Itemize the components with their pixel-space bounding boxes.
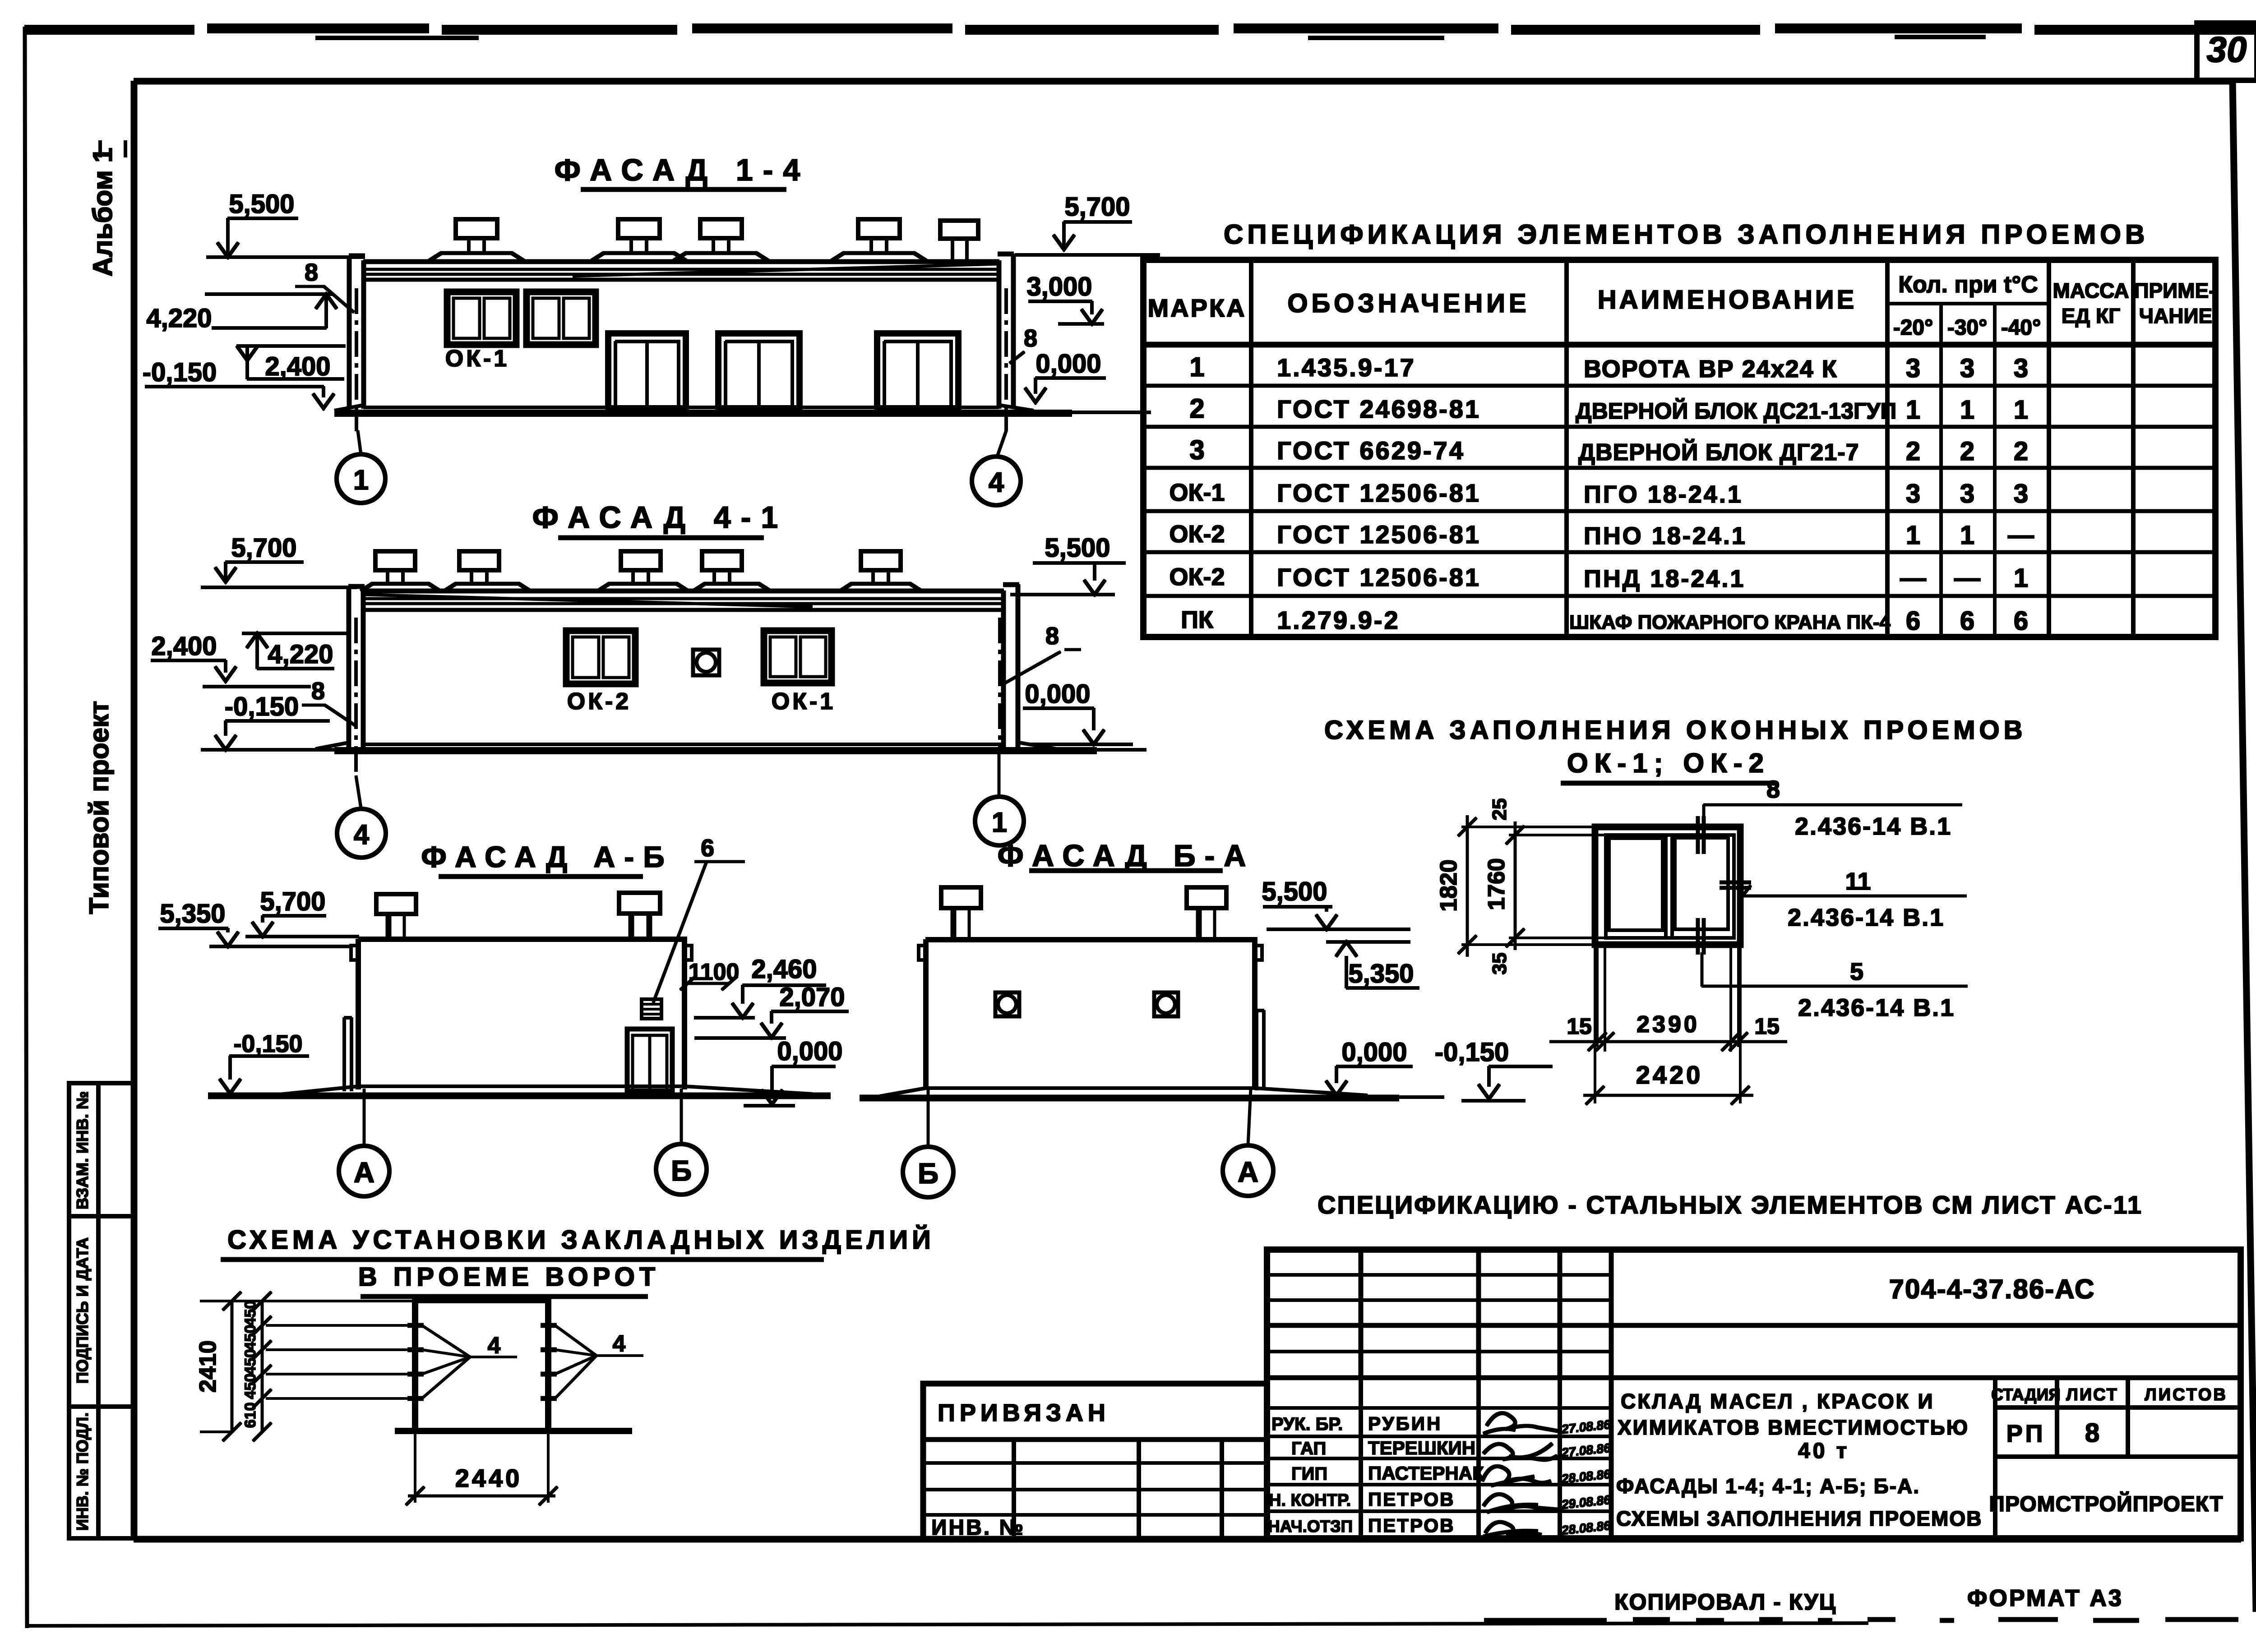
- axis line 1 (dash-dot): [355, 289, 358, 431]
- svg-text:5,350: 5,350: [160, 899, 225, 928]
- svg-text:ГОСТ 12506-81: ГОСТ 12506-81: [1277, 563, 1481, 591]
- top grid vertical lines: [1361, 1250, 1611, 1538]
- downpipe right: [1257, 1011, 1264, 1090]
- stage grid lines: [1995, 1378, 2241, 1538]
- wall base line: [364, 406, 999, 409]
- svg-text:РУК. БР.: РУК. БР.: [1271, 1414, 1343, 1434]
- outer bottom dashed segment under title block: [1484, 1620, 2238, 1620]
- svg-text:НАЧ.ОТЗП: НАЧ.ОТЗП: [1268, 1517, 1353, 1536]
- svg-text:8: 8: [1045, 623, 1059, 650]
- wall base line: [364, 743, 1003, 746]
- axis circle B: [903, 1089, 953, 1197]
- svg-text:НАИМЕНОВАНИЕ: НАИМЕНОВАНИЕ: [1598, 285, 1857, 314]
- svg-text:4: 4: [354, 819, 370, 850]
- svg-text:СПЕЦИФИКАЦИЮ - СТАЛЬНЫХ ЭЛЕМЕ: СПЕЦИФИКАЦИЮ - СТАЛЬНЫХ ЭЛЕМЕНТОВ СМ ЛИС…: [1318, 1191, 2143, 1219]
- svg-text:610: 610: [242, 1403, 259, 1428]
- apron slopes: [335, 405, 1033, 411]
- dim line 1820: [1436, 816, 1476, 956]
- attachment table column lines: [1014, 1440, 1222, 1540]
- roof vent 2: [444, 551, 530, 591]
- sheet number box "30": [2197, 23, 2256, 80]
- svg-text:5,500: 5,500: [1045, 533, 1110, 563]
- svg-text:-0,150: -0,150: [1435, 1038, 1509, 1067]
- svg-text:450: 450: [242, 1325, 259, 1351]
- svg-text:0,000: 0,000: [1036, 349, 1101, 378]
- outer left edge: [25, 27, 27, 1628]
- signature squiggle 4: [1484, 1494, 1558, 1512]
- svg-text:РП: РП: [2006, 1420, 2046, 1447]
- elevation mark 5,700 left: [201, 533, 356, 587]
- left pylon: [349, 256, 365, 408]
- svg-text:1: 1: [1960, 395, 1974, 425]
- svg-text:1760: 1760: [1484, 858, 1510, 910]
- roof vent right: [619, 893, 660, 938]
- svg-text:Кол. при t°C: Кол. при t°C: [1898, 272, 2038, 298]
- svg-text:2,400: 2,400: [151, 632, 217, 661]
- dim 2440: [406, 1435, 557, 1505]
- svg-text:4: 4: [613, 1331, 626, 1357]
- svg-text:-0,150: -0,150: [233, 1030, 302, 1057]
- svg-text:ДВЕРНОЙ БЛОК ДГ21-7: ДВЕРНОЙ БЛОК ДГ21-7: [1578, 439, 1859, 466]
- table header split: [1887, 302, 2049, 305]
- svg-text:8: 8: [1766, 776, 1780, 803]
- gate 2: [718, 333, 800, 408]
- gate left post: [412, 1301, 418, 1432]
- roof vent 3: [598, 551, 688, 591]
- dim line 2410: [195, 1292, 415, 1441]
- svg-text:15: 15: [1567, 1014, 1592, 1039]
- roof vent 1: [429, 219, 524, 261]
- window OK-2: [566, 631, 635, 684]
- left margin stamp table: [69, 1083, 135, 1538]
- axis line 4 (dash-dot): [355, 618, 357, 776]
- extension lines top/bottom left: [1462, 827, 1606, 945]
- svg-text:ФАСАД 4-1: ФАСАД 4-1: [532, 500, 788, 535]
- axis circle A: [339, 1089, 389, 1196]
- svg-text:1: 1: [1189, 352, 1204, 382]
- svg-text:-0,150: -0,150: [143, 358, 217, 387]
- svg-text:3: 3: [1906, 479, 1920, 508]
- ground line: [208, 1093, 830, 1099]
- svg-text:5,350: 5,350: [1348, 959, 1414, 988]
- elevation mark -0,150 left: [143, 358, 334, 408]
- window OK-1 left: [447, 292, 516, 345]
- svg-text:6: 6: [1960, 606, 1974, 636]
- svg-text:2410: 2410: [195, 1340, 221, 1393]
- svg-text:СХЕМЫ ЗАПОЛНЕНИЯ ПРОЕМОВ: СХЕМЫ ЗАПОЛНЕНИЯ ПРОЕМОВ: [1616, 1507, 1982, 1530]
- svg-text:МАРКА: МАРКА: [1147, 294, 1246, 322]
- right sash: [1675, 838, 1728, 929]
- signature squiggle 2: [1484, 1444, 1557, 1460]
- svg-text:1.279.9-2: 1.279.9-2: [1277, 606, 1400, 634]
- callout 8 / 2.436-14 B.1: [1704, 776, 1962, 847]
- wall base line: [880, 1088, 1367, 1096]
- anchor marks right post: [541, 1325, 556, 1398]
- svg-text:2: 2: [1906, 437, 1920, 466]
- svg-text:-30°: -30°: [1947, 316, 1988, 340]
- svg-text:ВЗАМ. ИНВ. №: ВЗАМ. ИНВ. №: [73, 1091, 92, 1209]
- svg-text:ОК-2: ОК-2: [1170, 563, 1225, 591]
- svg-text:3: 3: [1960, 354, 1974, 383]
- axis line 4 (dash-dot): [1005, 289, 1008, 431]
- callout 5 / 2.436-14 B.1: [1702, 953, 1967, 1021]
- svg-text:8: 8: [2085, 1418, 2099, 1448]
- anchor marks left post: [408, 1325, 423, 1398]
- svg-text:5,700: 5,700: [1064, 192, 1130, 221]
- svg-text:0,000: 0,000: [777, 1037, 842, 1066]
- elevation mark 2,400 left: [151, 632, 310, 687]
- axis circle 4: [972, 431, 1021, 505]
- gate top beam: [412, 1299, 551, 1303]
- callout 8 left: [296, 259, 354, 312]
- bottom extension lines: [1597, 947, 1738, 1051]
- outer bottom edge: [26, 1623, 1868, 1626]
- svg-text:МАССА: МАССА: [2053, 279, 2129, 302]
- elevation mark 4,220 left: [242, 633, 347, 669]
- elevation mark 0,000 right: [1025, 349, 1105, 402]
- elevation mark 0,000 right: [1023, 679, 1133, 744]
- axis circle 4: [337, 776, 386, 858]
- svg-text:8: 8: [1024, 325, 1037, 352]
- svg-text:11: 11: [1845, 868, 1871, 895]
- svg-text:5,500: 5,500: [1262, 877, 1327, 906]
- svg-text:СТАДИЯ: СТАДИЯ: [1991, 1385, 2061, 1404]
- svg-text:ГИП: ГИП: [1291, 1464, 1327, 1484]
- svg-text:2390: 2390: [1637, 1011, 1700, 1038]
- svg-text:ФАСАД Б-А: ФАСАД Б-А: [998, 839, 1255, 873]
- callout 8 left: [302, 678, 356, 726]
- left pylon: [349, 586, 364, 749]
- axis line 1 (dash-dot): [999, 618, 1001, 748]
- table outer frame: [1143, 260, 2215, 637]
- main title block frame: [1267, 1250, 2241, 1538]
- elevation mark 5,500 right: [1262, 877, 1410, 929]
- elevation mark 3,000 right: [1026, 272, 1104, 324]
- svg-text:ГОСТ 12506-81: ГОСТ 12506-81: [1277, 479, 1481, 507]
- svg-text:4: 4: [488, 1333, 501, 1359]
- axis circle 1: [337, 431, 385, 503]
- svg-text:СХЕМА ЗАПОЛНЕНИЯ ОКОННЫХ ПР: СХЕМА ЗАПОЛНЕНИЯ ОКОННЫХ ПРОЕМОВ: [1324, 715, 2027, 745]
- svg-text:15: 15: [1754, 1014, 1780, 1039]
- svg-text:1: 1: [992, 807, 1007, 838]
- svg-text:—: —: [1900, 563, 1926, 593]
- svg-text:1: 1: [1906, 521, 1920, 550]
- dim line 2420: [1584, 1061, 1753, 1104]
- svg-text:—: —: [1954, 563, 1980, 593]
- svg-text:ПНО 18-24.1: ПНО 18-24.1: [1584, 522, 1747, 549]
- svg-text:3: 3: [1189, 435, 1204, 465]
- svg-text:450: 450: [242, 1301, 259, 1326]
- svg-text:ОК-1; ОК-2: ОК-1; ОК-2: [1567, 748, 1770, 778]
- svg-text:ОК-2: ОК-2: [567, 688, 631, 715]
- svg-text:4,220: 4,220: [268, 640, 333, 669]
- svg-text:ЛИСТОВ: ЛИСТОВ: [2145, 1385, 2228, 1404]
- door: [627, 1029, 672, 1091]
- hatch box above door: [642, 999, 661, 1019]
- elevation mark 5,350 left: [159, 899, 351, 946]
- svg-text:СПЕЦИФИКАЦИЯ ЭЛЕМЕНТОВ ЗАП: СПЕЦИФИКАЦИЯ ЭЛЕМЕНТОВ ЗАПОЛНЕНИЯ ПРОЕМО…: [1224, 219, 2149, 249]
- svg-text:30: 30: [2207, 29, 2247, 69]
- svg-text:40 т: 40 т: [1798, 1439, 1849, 1463]
- anchor tick bottom: [1698, 918, 1704, 954]
- svg-text:Альбом 1: Альбом 1: [88, 148, 118, 277]
- elevation mark 0,000 bottom: [1326, 1038, 1412, 1095]
- top grid horizontal lines: [1267, 1275, 1611, 1352]
- roof vent 3: [674, 219, 768, 261]
- svg-text:ГАП: ГАП: [1291, 1439, 1326, 1458]
- elevation mark -0,150 left: [201, 692, 334, 750]
- roof vent 5: [840, 551, 921, 591]
- svg-text:ПРИВЯЗАН: ПРИВЯЗАН: [938, 1399, 1110, 1426]
- svg-text:2,400: 2,400: [265, 352, 330, 381]
- attachment table row lines: [923, 1438, 1267, 1442]
- roof slope line: [364, 595, 812, 607]
- svg-text:2: 2: [1960, 437, 1974, 466]
- svg-text:2440: 2440: [455, 1464, 522, 1492]
- svg-text:1820: 1820: [1436, 859, 1462, 912]
- parapet / roof band: [364, 260, 999, 264]
- svg-text:704-4-37.86-АС: 704-4-37.86-АС: [1889, 1274, 2095, 1304]
- roof vent 2: [592, 219, 686, 261]
- svg-text:2,460: 2,460: [751, 955, 817, 984]
- svg-text:ПОДПИСЬ И ДАТА: ПОДПИСЬ И ДАТА: [73, 1237, 92, 1384]
- svg-text:Типовой проект: Типовой проект: [84, 701, 114, 914]
- svg-text:4: 4: [989, 467, 1004, 498]
- svg-text:ИНВ. № ПОДЛ.: ИНВ. № ПОДЛ.: [73, 1412, 92, 1531]
- svg-text:А: А: [354, 1156, 374, 1189]
- svg-text:ХИМИКАТОВ ВМЕСТИМОСТЬЮ: ХИМИКАТОВ ВМЕСТИМОСТЬЮ: [1618, 1416, 1969, 1439]
- svg-text:3,000: 3,000: [1026, 272, 1092, 301]
- apron slopes: [316, 743, 1056, 749]
- svg-text:ФАСАД 1-4: ФАСАД 1-4: [555, 153, 810, 187]
- right pylon: [998, 254, 1013, 408]
- corner bumps: [919, 946, 926, 960]
- svg-text:ОК-1: ОК-1: [445, 346, 509, 372]
- svg-text:8: 8: [305, 259, 318, 286]
- svg-text:2,070: 2,070: [779, 983, 845, 1012]
- svg-text:ГОСТ 6629-74: ГОСТ 6629-74: [1277, 436, 1465, 465]
- svg-text:ПНД 18-24.1: ПНД 18-24.1: [1584, 565, 1745, 592]
- roof vent 5: [940, 221, 978, 261]
- building outline: [926, 940, 1255, 1089]
- name rows lines: [1267, 1408, 1611, 1511]
- svg-text:1.435.9-17: 1.435.9-17: [1277, 353, 1416, 382]
- svg-text:ДВЕРНОЙ БЛОК ДС21-13ГУП: ДВЕРНОЙ БЛОК ДС21-13ГУП: [1576, 398, 1896, 424]
- svg-text:6: 6: [1906, 606, 1920, 636]
- svg-text:0,000: 0,000: [1025, 679, 1090, 709]
- callout 11 / 2.436-14 B.1: [1743, 868, 1966, 931]
- svg-text:ПРОМСТРОЙПРОЕКТ: ПРОМСТРОЙПРОЕКТ: [1989, 1491, 2223, 1516]
- table row lines: [1143, 386, 2215, 596]
- dim line 1760: [1484, 822, 1524, 950]
- elevation mark -0,150 bottom: [1435, 1038, 1552, 1101]
- svg-text:3: 3: [1960, 479, 1974, 508]
- svg-text:ЛИСТ: ЛИСТ: [2066, 1385, 2118, 1404]
- callout 6: [653, 835, 744, 1002]
- svg-text:5,700: 5,700: [260, 887, 325, 916]
- svg-text:ГОСТ 12506-81: ГОСТ 12506-81: [1277, 520, 1481, 549]
- svg-text:1: 1: [2014, 563, 2028, 593]
- elevation mark 5,700 right: [1015, 192, 1160, 255]
- svg-text:-0,150: -0,150: [225, 692, 299, 721]
- svg-text:КОПИРОВАЛ - КУЦ: КОПИРОВАЛ - КУЦ: [1614, 1589, 1836, 1615]
- name rows vertical lines: [1361, 1378, 1560, 1538]
- svg-text:Б: Б: [671, 1154, 692, 1187]
- svg-text:ТЕРЕШКИН: ТЕРЕШКИН: [1368, 1437, 1475, 1458]
- svg-text:8: 8: [311, 678, 325, 705]
- svg-text:2.436-14 В.1: 2.436-14 В.1: [1795, 813, 1952, 840]
- svg-text:ОК-1: ОК-1: [772, 688, 836, 715]
- svg-text:ПАСТЕРНАК: ПАСТЕРНАК: [1368, 1463, 1484, 1484]
- elevation mark 2,460 right: [694, 955, 826, 1018]
- svg-text:2.436-14 В.1: 2.436-14 В.1: [1788, 904, 1945, 931]
- svg-text:СКЛАД МАСЕЛ , КРАСОК И: СКЛАД МАСЕЛ , КРАСОК И: [1621, 1389, 1935, 1413]
- svg-text:СХЕМА УСТАНОВКИ ЗАКЛАДНЫХ И: СХЕМА УСТАНОВКИ ЗАКЛАДНЫХ ИЗДЕЛИЙ: [227, 1225, 935, 1255]
- svg-text:450: 450: [242, 1349, 259, 1375]
- svg-text:5,700: 5,700: [231, 533, 296, 563]
- svg-text:ФОРМАТ А3: ФОРМАТ А3: [1967, 1585, 2123, 1611]
- building outline: [358, 939, 684, 1089]
- signature squiggle 3: [1482, 1466, 1551, 1486]
- roof vent left: [376, 894, 416, 938]
- elevation mark -0,150 left: [220, 1030, 309, 1094]
- round vent left: [995, 992, 1019, 1016]
- svg-text:ПГО 18-24.1: ПГО 18-24.1: [1584, 481, 1743, 508]
- svg-text:ПК: ПК: [1181, 606, 1214, 633]
- svg-text:1: 1: [1960, 521, 1974, 550]
- roof vent 4: [832, 219, 926, 261]
- window OK-1: [764, 631, 832, 683]
- svg-text:2: 2: [1189, 393, 1204, 424]
- svg-text:25: 25: [1489, 798, 1511, 821]
- ground line: [335, 410, 1072, 416]
- svg-text:1: 1: [1906, 395, 1920, 425]
- ground line: [860, 1095, 1399, 1101]
- gate ground line: [395, 1428, 632, 1434]
- svg-text:В ПРОЕМЕ ВОРОТ: В ПРОЕМЕ ВОРОТ: [358, 1262, 660, 1292]
- svg-text:Б: Б: [918, 1157, 938, 1190]
- roof vent right: [1187, 887, 1226, 939]
- fan lines right: [555, 1325, 643, 1398]
- svg-text:450: 450: [242, 1374, 259, 1399]
- window mullion: [1666, 835, 1672, 938]
- svg-text:-20°: -20°: [1893, 316, 1933, 340]
- svg-text:1: 1: [2014, 395, 2028, 425]
- svg-text:35: 35: [1489, 953, 1511, 975]
- svg-text:ОК-2: ОК-2: [1170, 521, 1225, 548]
- anchor tick right: [1720, 882, 1751, 888]
- ground line: [335, 748, 1096, 754]
- right pylon: [1003, 585, 1019, 749]
- roof vent 1: [361, 551, 440, 591]
- svg-text:4,220: 4,220: [146, 304, 212, 333]
- svg-text:РУБИН: РУБИН: [1368, 1413, 1442, 1434]
- svg-text:3: 3: [2014, 354, 2028, 383]
- svg-text:ЕД КГ: ЕД КГ: [2062, 304, 2120, 328]
- svg-text:6: 6: [2014, 606, 2028, 636]
- svg-text:2420: 2420: [1636, 1061, 1703, 1089]
- svg-text:5: 5: [1850, 958, 1863, 985]
- elevation mark 5,500 right: [1011, 533, 1125, 595]
- svg-text:ВОРОТА ВР 24х24 К: ВОРОТА ВР 24х24 К: [1584, 355, 1838, 383]
- elevation mark 0,000 right: [744, 1037, 843, 1106]
- roof vent 4: [693, 551, 770, 591]
- gate 3: [877, 333, 958, 408]
- dim line 15/2390/15: [1550, 1011, 1787, 1051]
- svg-text:6: 6: [701, 835, 714, 862]
- window OK-1 right: [527, 292, 596, 345]
- svg-text:ОБОЗНАЧЕНИЕ: ОБОЗНАЧЕНИЕ: [1287, 289, 1530, 318]
- signature squiggle 1: [1484, 1413, 1558, 1434]
- svg-text:ПЕТРОВ: ПЕТРОВ: [1368, 1489, 1455, 1510]
- svg-text:0,000: 0,000: [1341, 1038, 1407, 1067]
- gate 1: [608, 333, 686, 408]
- axis circle A: [1223, 1089, 1273, 1196]
- roof vent left: [941, 887, 981, 939]
- svg-text:А: А: [1238, 1156, 1258, 1188]
- table header bottom: [1143, 342, 2215, 347]
- callout 8 right: [1003, 623, 1081, 684]
- svg-text:ОК-1: ОК-1: [1170, 479, 1225, 506]
- svg-text:Н. КОНТР.: Н. КОНТР.: [1269, 1491, 1351, 1510]
- round vent right: [1154, 992, 1178, 1016]
- svg-text:—: —: [2008, 521, 2034, 550]
- svg-text:ЧАНИЕ: ЧАНИЕ: [2139, 304, 2213, 328]
- svg-text:ПЕТРОВ: ПЕТРОВ: [1368, 1515, 1455, 1536]
- fan lines left: [422, 1325, 517, 1398]
- svg-text:2: 2: [2014, 437, 2028, 466]
- torn top edge secondary dashes: [316, 37, 1985, 38]
- roof slope line: [573, 264, 999, 276]
- table column lines: [1251, 260, 2133, 637]
- svg-text:ФАСАДЫ 1-4; 4-1; А-Б; Б-А.: ФАСАДЫ 1-4; 4-1; А-Б; Б-А.: [1616, 1474, 1920, 1498]
- callout 8 right: [1010, 325, 1037, 363]
- svg-text:3: 3: [1906, 354, 1920, 383]
- elevation mark 5,500 left: [207, 189, 365, 257]
- window inner frame: [1606, 835, 1734, 938]
- svg-text:ШКАФ ПОЖАРНОГО КРАНА ПК-4: ШКАФ ПОЖАРНОГО КРАНА ПК-4: [1569, 611, 1891, 633]
- window outer frame: [1595, 827, 1740, 945]
- svg-text:ИНВ. №: ИНВ. №: [931, 1516, 1025, 1540]
- left pane: [1609, 838, 1663, 930]
- gate right post: [546, 1301, 551, 1432]
- elevation mark 2,400 left: [237, 346, 345, 381]
- signature squiggle 5: [1484, 1522, 1541, 1537]
- corner bumps: [684, 946, 692, 960]
- svg-text:5,500: 5,500: [229, 189, 294, 219]
- elevation mark 4,220 left: [146, 294, 337, 333]
- svg-text:ПРИМЕ-: ПРИМЕ-: [2134, 279, 2215, 302]
- anchor tick top: [1698, 817, 1704, 854]
- small round window: [693, 650, 719, 675]
- axis circle 1: [975, 751, 1024, 845]
- dim line 450x4+610: [242, 1292, 271, 1441]
- svg-text:-40°: -40°: [2001, 316, 2041, 340]
- anchor leader lines: [266, 1325, 420, 1398]
- downpipe left: [344, 1018, 351, 1091]
- attachment table frame: [923, 1384, 1267, 1540]
- svg-text:ФАСАД А-Б: ФАСАД А-Б: [421, 840, 673, 873]
- elevation mark 5,350 right: [1327, 942, 1419, 988]
- elevation mark 5,700 left: [246, 887, 359, 937]
- svg-text:1: 1: [353, 465, 369, 496]
- dim 1100 right: [680, 959, 739, 990]
- svg-text:2.436-14 В.1: 2.436-14 В.1: [1798, 994, 1955, 1021]
- parapet / roof band: [364, 589, 1003, 593]
- outer torn top edge: [25, 28, 2256, 30]
- svg-text:3: 3: [2014, 479, 2028, 508]
- wall base line: [271, 1086, 812, 1095]
